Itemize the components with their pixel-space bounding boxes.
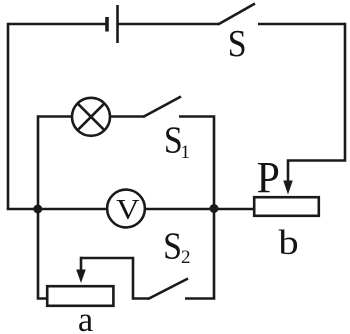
svg-text:2: 2 [181, 247, 191, 268]
svg-text:b: b [278, 224, 298, 263]
svg-text:a: a [78, 301, 93, 334]
svg-text:P: P [257, 154, 280, 202]
svg-text:1: 1 [181, 142, 191, 163]
svg-text:S: S [163, 224, 182, 266]
svg-text:V: V [116, 194, 140, 225]
svg-text:S: S [228, 22, 247, 64]
